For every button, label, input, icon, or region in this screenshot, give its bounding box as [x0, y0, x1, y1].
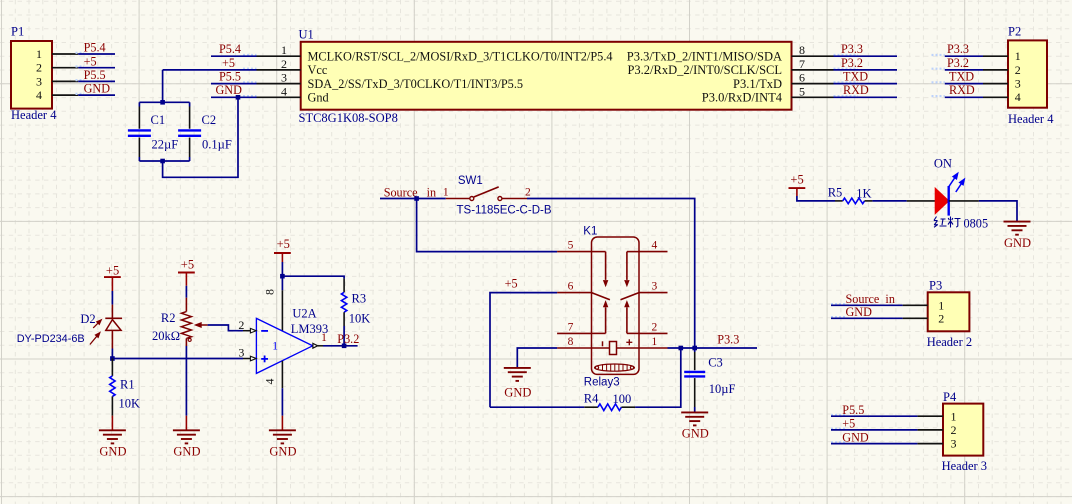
- svg-text:1: 1: [938, 298, 944, 312]
- wire +5 to U2A pin 8: [281, 253, 283, 331]
- svg-text:DY-PD234-6B: DY-PD234-6B: [17, 333, 85, 345]
- wire relay pin 8 to ground: [517, 348, 557, 368]
- connector P4 Header 3: [943, 404, 983, 456]
- svg-text:GND: GND: [1004, 236, 1031, 250]
- svg-text:1: 1: [272, 340, 278, 352]
- svg-text:GND: GND: [173, 445, 200, 459]
- svg-text:+5: +5: [181, 258, 194, 272]
- wire cap bottom to U1 Gnd net: [163, 97, 238, 177]
- ground symbol below U2A: [281, 416, 283, 430]
- svg-text:GND: GND: [842, 430, 869, 444]
- ground symbol below C3: [681, 411, 708, 413]
- capacitor C3: [684, 348, 735, 412]
- junction D2/R1/comparator: [110, 356, 115, 361]
- relay right pins 4,3,2,1: [639, 240, 668, 348]
- U2A output pin 1: [313, 332, 327, 348]
- svg-text:P3.3: P3.3: [717, 332, 739, 346]
- svg-text:P3.2: P3.2: [947, 56, 969, 70]
- svg-text:P5.4: P5.4: [219, 42, 241, 56]
- svg-text:1: 1: [951, 409, 957, 423]
- wire net TXD from U1 pin 6: [834, 83, 898, 85]
- svg-text:R5: R5: [828, 186, 843, 200]
- wire cap top rail: [139, 101, 189, 103]
- junction +5/R3: [280, 274, 285, 279]
- svg-text:TS-1185EC-C-D-B: TS-1185EC-C-D-B: [457, 205, 552, 217]
- wire net GND to U1 pin 4: [211, 96, 257, 98]
- svg-text:Header 4: Header 4: [11, 108, 57, 122]
- wire net P5.5 to U1 pin 3: [211, 83, 257, 85]
- relay left pins 5,6,7,8: [557, 240, 591, 348]
- svg-text:+5: +5: [222, 56, 235, 70]
- svg-text:2: 2: [281, 57, 287, 71]
- svg-text:P3.1/TxD: P3.1/TxD: [733, 77, 782, 91]
- svg-text:P4: P4: [943, 390, 957, 404]
- wire D2 to junction: [111, 349, 113, 359]
- resistor R1 10K: [110, 359, 140, 416]
- svg-text:100: 100: [613, 392, 632, 406]
- capacitor C2: [178, 102, 232, 161]
- svg-text:5: 5: [799, 84, 805, 98]
- svg-text:2: 2: [1015, 63, 1021, 77]
- svg-text:P5.5: P5.5: [842, 403, 864, 417]
- svg-text:GND: GND: [99, 445, 126, 459]
- wire +5 to R5: [797, 188, 835, 201]
- svg-text:3: 3: [36, 74, 42, 88]
- connection marks U1: [243, 55, 858, 96]
- switch SW1 TS-1185EC-C-D-B: [443, 175, 552, 217]
- svg-text:P3.3/TxD_2/INT1/MISO/SDA: P3.3/TxD_2/INT1/MISO/SDA: [627, 50, 782, 64]
- svg-text:20kΩ: 20kΩ: [152, 329, 180, 343]
- ground symbol at LED: [1004, 221, 1031, 223]
- svg-text:4: 4: [281, 84, 287, 98]
- svg-text:2: 2: [238, 318, 244, 332]
- svg-text:+5: +5: [84, 54, 97, 68]
- wire net P3.2 from U1 pin 7: [834, 69, 898, 71]
- svg-text:R2: R2: [161, 311, 176, 325]
- svg-text:P1: P1: [11, 25, 24, 39]
- svg-text:ON: ON: [934, 157, 952, 171]
- wire +5 to D2: [111, 277, 113, 318]
- svg-text:P3.2/RxD_2/INT0/SCLK/SCL: P3.2/RxD_2/INT0/SCLK/SCL: [627, 63, 782, 77]
- svg-text:R4: R4: [584, 391, 599, 405]
- svg-text:4: 4: [263, 379, 277, 385]
- svg-text:0.1µF: 0.1µF: [202, 138, 232, 152]
- svg-text:GND: GND: [504, 385, 531, 399]
- connector P3 Header 2: [928, 292, 970, 331]
- junction Source_in: [414, 196, 419, 201]
- wire net P3.2 to P2 pin 2: [945, 69, 983, 71]
- svg-text:1: 1: [1015, 49, 1021, 63]
- svg-text:1K: 1K: [856, 186, 871, 200]
- P4 pin stubs: [917, 416, 943, 443]
- potentiometer R2 20k: [152, 298, 208, 346]
- capacitor C1: [128, 102, 178, 161]
- svg-text:Source in: Source in: [384, 185, 436, 199]
- svg-text:2: 2: [938, 311, 944, 325]
- wire net Source_in to P3 pin 1: [831, 304, 903, 306]
- svg-text:Vcc: Vcc: [308, 63, 328, 77]
- svg-text:P3.2: P3.2: [337, 332, 359, 346]
- junction relay pin1 / R4: [679, 346, 684, 351]
- resistor R4 100: [584, 391, 635, 410]
- svg-text:8: 8: [568, 336, 574, 348]
- svg-text:P3.3: P3.3: [841, 42, 863, 56]
- svg-text:6: 6: [568, 281, 574, 293]
- svg-text:C2: C2: [202, 113, 217, 127]
- connector P2 Header 4: [1008, 40, 1047, 107]
- wire net P5.5 at P1 pin 3: [78, 80, 115, 82]
- svg-text:6: 6: [799, 71, 805, 85]
- svg-text:Gnd: Gnd: [308, 91, 329, 105]
- connection marks P2: [932, 55, 945, 96]
- wire net GND to P3 pin 2: [831, 317, 903, 319]
- svg-text:R3: R3: [352, 291, 367, 305]
- svg-text:7: 7: [799, 57, 805, 71]
- wire net RXD from U1 pin 5: [834, 96, 898, 98]
- wire net P5.4 to U1 pin 1: [211, 55, 257, 57]
- svg-text:3: 3: [951, 437, 957, 451]
- svg-text:GND: GND: [682, 427, 709, 441]
- svg-text:+5: +5: [505, 277, 518, 291]
- wire net Source_in to SW1 pin 1: [380, 198, 446, 200]
- svg-text:22µF: 22µF: [152, 138, 179, 152]
- wire net P3.3 from U1 pin 8: [834, 55, 898, 57]
- svg-text:10K: 10K: [119, 397, 141, 411]
- svg-text:Header 4: Header 4: [1008, 112, 1054, 126]
- svg-text:2: 2: [36, 61, 42, 75]
- svg-text:4: 4: [1015, 90, 1021, 104]
- svg-text:3: 3: [281, 71, 287, 85]
- connection marks P3: [831, 304, 846, 317]
- svg-text:4: 4: [36, 88, 42, 102]
- wire LED to ground: [979, 201, 1017, 222]
- resistor R3 10K: [341, 279, 370, 326]
- wire net P3.3 to P2 pin 1: [945, 55, 983, 57]
- connection marks P1: [76, 53, 85, 94]
- U1 left pins 1-4: [257, 43, 301, 98]
- wire net P3.2 from U2A output: [323, 345, 358, 347]
- svg-text:2: 2: [951, 423, 957, 437]
- svg-text:TXD: TXD: [843, 70, 868, 84]
- U1 right pins 8-5: [792, 43, 834, 98]
- connection marks P4: [831, 415, 846, 442]
- photodiode D2 DY-PD234-6B: [17, 312, 122, 349]
- svg-text:3: 3: [652, 281, 658, 293]
- U2A pin 3 input glyph: [238, 345, 256, 361]
- svg-text:U1: U1: [299, 28, 314, 42]
- op-amp U2A LM393: [256, 289, 328, 385]
- svg-text:MCLKO/RST/SCL_2/MOSI/RxD_3/T1C: MCLKO/RST/SCL_2/MOSI/RxD_3/T1CLKO/T0/INT…: [308, 50, 613, 64]
- junction cap bottom: [160, 159, 165, 164]
- P3 pin stubs: [903, 305, 928, 318]
- svg-text:Relay3: Relay3: [584, 377, 620, 389]
- svg-text:8: 8: [799, 43, 805, 57]
- svg-text:P3.0/RxD/INT4: P3.0/RxD/INT4: [702, 91, 783, 105]
- connector P1 Header 4: [11, 41, 52, 109]
- relay contact internals: [592, 252, 640, 334]
- svg-text:D2: D2: [80, 312, 95, 326]
- P2 pin stubs: [983, 56, 1008, 97]
- wire +5 over to R3: [282, 276, 344, 278]
- svg-text:P5.5: P5.5: [84, 68, 106, 82]
- wire net +5 at P1 pin 2: [78, 67, 115, 69]
- ground symbol at relay pin 8: [504, 367, 531, 369]
- svg-text:0805: 0805: [964, 216, 989, 230]
- wire +5 to relay pin 6: [490, 293, 557, 408]
- svg-text:RXD: RXD: [843, 83, 869, 97]
- U2A pin 2 input glyph: [238, 318, 256, 333]
- junction output/R3: [342, 344, 347, 349]
- svg-text:7: 7: [568, 321, 574, 333]
- svg-text:1: 1: [652, 336, 658, 348]
- svg-text:P2: P2: [1008, 25, 1021, 39]
- relay K1 Relay3 body: [583, 226, 639, 389]
- svg-text:5: 5: [568, 240, 574, 252]
- svg-text:+5: +5: [790, 173, 803, 187]
- svg-text:TXD: TXD: [949, 70, 974, 84]
- wire R4 branch: [635, 348, 681, 407]
- wire +5 to R2: [185, 273, 187, 298]
- svg-text:GND: GND: [269, 445, 296, 459]
- svg-text:SW1: SW1: [458, 175, 483, 187]
- svg-text:GND: GND: [84, 82, 111, 96]
- wire net GND at P1 pin 4: [78, 94, 115, 96]
- svg-text:10µF: 10µF: [709, 382, 736, 396]
- wire net +5 to U1 pin 2 Vcc: [163, 69, 257, 71]
- svg-text:2: 2: [652, 321, 658, 333]
- svg-text:1: 1: [36, 47, 42, 61]
- wire net TXD to P2 pin 3: [945, 83, 983, 85]
- svg-text:Header 3: Header 3: [942, 459, 987, 473]
- wire Source_in down to relay pin 5: [417, 199, 557, 252]
- svg-text:3: 3: [1015, 77, 1021, 91]
- led DS red 0805: [907, 157, 979, 216]
- svg-text:GND: GND: [846, 305, 873, 319]
- junction cap top: [160, 100, 165, 105]
- svg-text:3: 3: [238, 345, 244, 359]
- wire cap bottom rail: [139, 160, 189, 162]
- wire net P5.5 to P4 pin 1: [831, 415, 917, 417]
- svg-text:R1: R1: [120, 378, 135, 392]
- svg-text:P5.4: P5.4: [84, 41, 106, 55]
- junction relay pin1 / C3: [692, 346, 697, 351]
- resistor R5 1K: [828, 186, 873, 204]
- wire net P5.4 at P1 pin 1: [78, 53, 115, 55]
- ground symbol below R2: [185, 416, 187, 430]
- svg-text:P3.2: P3.2: [841, 56, 863, 70]
- wire SW1 pin 2 to relay pin 1 column: [527, 199, 695, 349]
- wire net RXD to P2 pin 4: [945, 96, 983, 98]
- svg-text:P5.5: P5.5: [219, 70, 241, 84]
- svg-text:STC8G1K08-SOP8: STC8G1K08-SOP8: [299, 111, 398, 125]
- wire net P3.3 from relay pin 1: [668, 347, 758, 349]
- svg-text:SDA_2/SS/TxD_3/T0CLKO/T1/INT3/: SDA_2/SS/TxD_3/T0CLKO/T1/INT3/P5.5: [308, 77, 524, 91]
- wire R2 bottom to ground: [185, 346, 187, 416]
- wire +5 down to capacitors: [162, 70, 164, 102]
- ground symbol below R1: [111, 416, 113, 430]
- wire junction to U2A pin 3: [112, 358, 243, 360]
- label red-lamp 0805: [934, 216, 988, 230]
- svg-text:1: 1: [321, 332, 327, 344]
- P1 pin stubs: [52, 54, 78, 95]
- svg-text:+5: +5: [106, 263, 119, 277]
- wire net +5 to P4 pin 2: [831, 429, 917, 431]
- svg-text:Header 2: Header 2: [927, 335, 972, 349]
- relay coil: [592, 339, 640, 371]
- svg-text:10K: 10K: [349, 312, 371, 326]
- svg-text:+5: +5: [842, 417, 855, 431]
- svg-text:1: 1: [281, 43, 287, 57]
- svg-text:C1: C1: [151, 113, 166, 127]
- svg-text:4: 4: [652, 240, 658, 252]
- wire R4 to +5 column: [490, 406, 584, 408]
- svg-text:U2A: U2A: [292, 307, 316, 321]
- svg-text:8: 8: [263, 289, 277, 295]
- junction on GND wire: [236, 95, 241, 100]
- wire R2 wiper to U2A pin 2: [208, 325, 243, 331]
- wire R5 to LED: [872, 200, 906, 202]
- svg-text:P3.3: P3.3: [947, 42, 969, 56]
- svg-text:1: 1: [443, 187, 449, 199]
- svg-text:2: 2: [525, 187, 531, 199]
- svg-text:+5: +5: [277, 237, 290, 251]
- svg-text:K1: K1: [583, 226, 597, 238]
- svg-text:P3: P3: [929, 278, 942, 292]
- mcu U1 STC8G1K08-SOP8 body: [301, 42, 792, 110]
- svg-text:RXD: RXD: [949, 83, 975, 97]
- svg-text:Source in: Source in: [846, 292, 895, 306]
- svg-text:C3: C3: [708, 356, 723, 370]
- wire net GND to P4 pin 3: [831, 443, 917, 445]
- wire R3 to output net: [343, 326, 345, 346]
- wire U2A pin 4 to ground: [281, 361, 283, 388]
